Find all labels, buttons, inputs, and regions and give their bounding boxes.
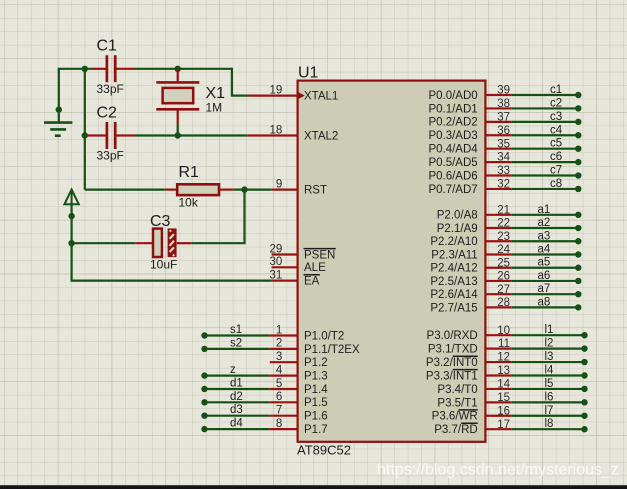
- svg-text:C3: C3: [150, 213, 171, 230]
- wire net c5 from pin 35: [512, 148, 579, 150]
- junction dot net l5: [581, 386, 587, 392]
- svg-text:a7: a7: [538, 283, 551, 295]
- wire RST row left segment: [85, 189, 165, 191]
- pin 32 (P0.7/AD7): [428, 179, 511, 196]
- svg-text:1: 1: [276, 324, 282, 336]
- svg-text:a1: a1: [538, 204, 551, 216]
- svg-text:1M: 1M: [206, 101, 223, 115]
- svg-text:31: 31: [270, 269, 283, 281]
- wire net d1 to pin 5: [205, 388, 270, 390]
- wire net c4 from pin 36: [512, 134, 579, 136]
- svg-text:39: 39: [497, 85, 510, 97]
- junction dot net a3: [575, 238, 581, 244]
- svg-text:l3: l3: [545, 351, 554, 363]
- svg-text:C2: C2: [97, 105, 118, 122]
- svg-text:22: 22: [497, 218, 510, 230]
- pin 9 (RST): [272, 178, 327, 196]
- svg-text:c5: c5: [550, 138, 562, 150]
- svg-text:18: 18: [270, 124, 283, 136]
- svg-text:12: 12: [497, 352, 510, 364]
- wire net l3 from pin 12: [512, 361, 585, 363]
- pin 18 (XTAL2): [248, 124, 339, 142]
- pin 12 (P3.2/INT0): [426, 352, 512, 369]
- junction dot net z: [201, 372, 207, 378]
- svg-text:P3.3/INT1: P3.3/INT1: [426, 370, 478, 382]
- pin 34 (P0.5/AD5): [428, 152, 511, 169]
- svg-text:P3.4/T0: P3.4/T0: [437, 384, 477, 396]
- svg-text:P0.6/AD6: P0.6/AD6: [428, 170, 477, 182]
- pin 7 (P1.6): [270, 405, 328, 423]
- pin 4 (P1.3): [270, 364, 328, 382]
- svg-text:l6: l6: [545, 391, 554, 403]
- svg-text:AT89C52: AT89C52: [297, 443, 351, 458]
- junction dot net a2: [575, 225, 581, 231]
- svg-text:2: 2: [276, 338, 282, 350]
- capacitor C1: [93, 55, 135, 82]
- svg-text:33pF: 33pF: [97, 149, 124, 163]
- wire net s2 to pin 2: [205, 348, 270, 350]
- pin 33 (P0.6/AD6): [428, 165, 511, 182]
- svg-text:21: 21: [497, 204, 510, 216]
- wire net c7 from pin 33: [512, 174, 579, 176]
- svg-text:9: 9: [276, 178, 282, 190]
- pin 19 (XTAL1): [249, 84, 339, 102]
- wire net l5 from pin 14: [512, 388, 585, 390]
- wire crystal to XTAL2 row: [177, 124, 179, 137]
- svg-text:P3.6/WR: P3.6/WR: [432, 411, 478, 423]
- svg-text:6: 6: [276, 391, 282, 403]
- svg-text:P2.5/A13: P2.5/A13: [430, 276, 477, 288]
- ground: [44, 123, 72, 136]
- wire net a2 from pin 22: [512, 227, 579, 229]
- pin 14 (P3.4/T0): [437, 379, 511, 396]
- junction dot net c1: [575, 92, 581, 98]
- svg-text:10k: 10k: [179, 196, 199, 210]
- svg-text:P3.2/INT0: P3.2/INT0: [426, 357, 478, 369]
- wire net l6 from pin 15: [512, 401, 585, 403]
- svg-text:P2.0/A8: P2.0/A8: [437, 210, 478, 222]
- wire net c6 from pin 34: [512, 161, 579, 163]
- junction dot net c2: [575, 105, 581, 111]
- wire net c8 from pin 32: [512, 188, 579, 190]
- wire C1 row: [135, 68, 232, 70]
- svg-text:a4: a4: [538, 243, 551, 255]
- svg-text:25: 25: [497, 257, 510, 269]
- wire net l4 from pin 13: [512, 374, 585, 376]
- junction dot C1/ground branch: [82, 66, 88, 72]
- wire R1 to RST pin: [233, 189, 271, 191]
- svg-text:l2: l2: [545, 338, 554, 350]
- svg-text:P3.5/T1: P3.5/T1: [437, 397, 477, 409]
- junction dot net l6: [581, 399, 587, 405]
- wire EA row: [72, 280, 272, 281]
- svg-text:a3: a3: [538, 230, 551, 242]
- pin 22 (P2.1/A9): [437, 218, 512, 235]
- junction dot net c6: [575, 159, 581, 165]
- wire net l2 from pin 11: [512, 348, 585, 350]
- junction dot above ground: [56, 106, 62, 112]
- svg-text:P0.7/AD7: P0.7/AD7: [428, 184, 477, 196]
- svg-text:23: 23: [497, 231, 510, 243]
- junction dot net l2: [581, 345, 587, 351]
- junction dot net c4: [575, 132, 581, 138]
- svg-text:a5: a5: [538, 257, 551, 269]
- svg-text:z: z: [230, 364, 236, 376]
- svg-text:P1.7: P1.7: [304, 424, 328, 436]
- pin 3 (P1.2): [270, 351, 328, 369]
- svg-text:19: 19: [270, 84, 283, 96]
- wire net c2 from pin 38: [512, 107, 579, 109]
- svg-text:l4: l4: [545, 364, 555, 376]
- pin 27 (P2.6/A14): [430, 284, 511, 301]
- svg-text:a6: a6: [538, 270, 551, 282]
- junction dot net c8: [575, 186, 581, 192]
- junction dot net l1: [581, 332, 587, 338]
- svg-text:c7: c7: [550, 165, 562, 177]
- junction dot net l7: [581, 413, 587, 419]
- svg-text:a8: a8: [538, 296, 551, 308]
- junction dot power bus upper: [68, 213, 74, 219]
- svg-text:32: 32: [497, 179, 510, 191]
- pin 31 (EA): [270, 269, 320, 287]
- svg-text:XTAL1: XTAL1: [304, 91, 338, 103]
- svg-text:P2.6/A14: P2.6/A14: [430, 289, 478, 301]
- wire XTAL2 row: [135, 134, 248, 136]
- wire net l1 from pin 10: [512, 334, 585, 336]
- junction dot crystal/XTAL2: [175, 132, 181, 138]
- svg-text:d2: d2: [230, 391, 243, 403]
- svg-text:3: 3: [276, 351, 282, 363]
- junction dot net c3: [575, 119, 581, 125]
- svg-text:XTAL2: XTAL2: [304, 130, 338, 142]
- wire net s1 to pin 1: [205, 334, 270, 336]
- svg-text:P1.0/T2: P1.0/T2: [304, 330, 344, 342]
- svg-text:P2.3/A11: P2.3/A11: [431, 249, 477, 261]
- wire net d4 to pin 8: [205, 428, 270, 430]
- wire RST branch down to C3 row: [191, 190, 244, 244]
- svg-text:26: 26: [497, 271, 510, 283]
- junction dot net a1: [575, 212, 581, 218]
- junction dot RST/C3 branch: [241, 186, 247, 192]
- bottom window border: [0, 485, 627, 489]
- wire power bus vertical: [70, 204, 72, 280]
- pin 15 (P3.5/T1): [437, 392, 511, 409]
- junction dot net d1: [201, 386, 207, 392]
- svg-text:l1: l1: [545, 324, 554, 336]
- svg-text:28: 28: [497, 297, 510, 309]
- svg-text:l5: l5: [545, 378, 554, 390]
- svg-text:EA: EA: [304, 276, 320, 288]
- junction dot net d4: [201, 426, 207, 432]
- wire C1 row corner down to XTAL1 row: [232, 68, 249, 96]
- pin 1 (P1.0/T2): [270, 324, 344, 342]
- svg-text:P2.2/A10: P2.2/A10: [430, 236, 477, 248]
- pin 29 (PSEN): [270, 243, 336, 261]
- crystal X1: [156, 70, 199, 124]
- svg-text:8: 8: [276, 418, 282, 430]
- svg-text:17: 17: [497, 419, 510, 431]
- pin 2 (P1.1/T2EX): [270, 338, 360, 356]
- svg-text:33pF: 33pF: [97, 82, 124, 96]
- svg-text:15: 15: [497, 392, 510, 404]
- svg-text:P1.6: P1.6: [304, 411, 328, 423]
- junction dot net a5: [575, 265, 581, 271]
- svg-text:d4: d4: [230, 418, 243, 430]
- wire net a6 from pin 26: [512, 280, 579, 282]
- wire left vertical bus (C1 to C2 to RST row): [84, 69, 86, 190]
- wire net z to pin 4: [205, 375, 270, 377]
- svg-text:d1: d1: [230, 378, 243, 390]
- svg-text:c1: c1: [550, 84, 562, 96]
- svg-text:P0.4/AD4: P0.4/AD4: [428, 144, 478, 156]
- pin 39 (P0.0/AD0): [428, 85, 511, 102]
- junction dot net a8: [575, 304, 581, 310]
- svg-text:d3: d3: [230, 404, 243, 416]
- svg-text:P0.3/AD3: P0.3/AD3: [428, 130, 477, 142]
- svg-text:C1: C1: [97, 38, 118, 55]
- pin 16 (P3.6/WR): [432, 405, 512, 422]
- svg-text:c6: c6: [550, 151, 562, 163]
- junction dot power bus / C3: [68, 240, 74, 246]
- svg-text:P0.5/AD5: P0.5/AD5: [428, 157, 477, 169]
- wire C3 left lead to power bus: [72, 242, 136, 244]
- junction dot net c7: [575, 172, 581, 178]
- svg-text:7: 7: [276, 405, 282, 417]
- svg-text:c8: c8: [550, 178, 562, 190]
- svg-text:35: 35: [497, 138, 510, 150]
- pin 11 (P3.1/TXD): [428, 338, 512, 355]
- resistor R1: [165, 184, 234, 195]
- wire net d3 to pin 7: [205, 415, 270, 417]
- capacitor C2: [85, 122, 135, 149]
- svg-text:P2.7/A15: P2.7/A15: [430, 302, 477, 314]
- svg-text:10: 10: [497, 325, 510, 337]
- pin 30 (ALE): [270, 256, 327, 274]
- junction dot net s1: [201, 332, 207, 338]
- svg-text:P2.4/A12: P2.4/A12: [430, 263, 477, 275]
- wire C1 row to ground corner: [58, 68, 93, 70]
- junction dot C1/crystal: [175, 66, 181, 72]
- pin 6 (P1.5): [270, 391, 328, 409]
- junction dot net d2: [201, 399, 207, 405]
- wire net a5 from pin 25: [512, 267, 579, 269]
- svg-text:https://blog.csdn.net/mysterio: https://blog.csdn.net/mysterious_z: [377, 462, 619, 479]
- svg-text:P0.2/AD2: P0.2/AD2: [428, 117, 477, 129]
- power terminal arrow: [64, 190, 78, 205]
- svg-text:13: 13: [497, 365, 510, 377]
- wire net a3 from pin 23: [512, 240, 579, 242]
- pin 25 (P2.4/A12): [430, 257, 511, 274]
- svg-text:33: 33: [497, 165, 510, 177]
- svg-text:4: 4: [276, 364, 283, 376]
- wire net a7 from pin 27: [512, 293, 579, 295]
- svg-text:P0.0/AD0: P0.0/AD0: [428, 90, 477, 102]
- svg-text:16: 16: [497, 405, 510, 417]
- svg-text:s1: s1: [230, 324, 242, 336]
- wire net c3 from pin 37: [512, 121, 579, 123]
- svg-text:29: 29: [270, 243, 283, 255]
- wire net l8 from pin 17: [512, 428, 585, 430]
- svg-text:34: 34: [497, 152, 510, 164]
- pin 37 (P0.2/AD2): [428, 111, 511, 128]
- pin 21 (P2.0/A8): [437, 204, 512, 221]
- svg-text:P1.1/T2EX: P1.1/T2EX: [304, 344, 360, 356]
- svg-text:c2: c2: [550, 97, 562, 109]
- wire net d2 to pin 6: [205, 401, 270, 403]
- svg-text:ALE: ALE: [304, 262, 326, 274]
- svg-text:P2.1/A9: P2.1/A9: [437, 223, 478, 235]
- wire net a1 from pin 21: [512, 214, 579, 216]
- svg-text:l8: l8: [545, 418, 554, 430]
- svg-text:36: 36: [497, 125, 510, 137]
- svg-text:X1: X1: [206, 85, 226, 102]
- pin 28 (P2.7/A15): [430, 297, 511, 314]
- pin 17 (P3.7/RD): [434, 419, 511, 436]
- svg-text:37: 37: [497, 111, 510, 123]
- pin 38 (P0.1/AD1): [428, 98, 511, 115]
- junction dot net l4: [581, 372, 587, 378]
- junction dot net a6: [575, 278, 581, 284]
- wire net l7 from pin 16: [512, 415, 585, 417]
- wire net a4 from pin 24: [512, 253, 579, 255]
- svg-text:P3.0/RXD: P3.0/RXD: [427, 330, 478, 342]
- svg-text:a2: a2: [538, 217, 551, 229]
- pin 24 (P2.3/A11): [431, 244, 511, 261]
- pin 13 (P3.3/INT1): [426, 365, 512, 382]
- wire net a8 from pin 28: [512, 306, 579, 308]
- svg-text:P3.7/RD: P3.7/RD: [434, 424, 477, 436]
- svg-text:l7: l7: [545, 405, 554, 417]
- svg-text:P1.3: P1.3: [304, 371, 328, 383]
- pin 5 (P1.4): [270, 378, 328, 396]
- svg-text:c3: c3: [550, 111, 562, 123]
- IC U1 (AT89C52 microcontroller) body: [298, 81, 486, 442]
- svg-text:c4: c4: [550, 124, 563, 136]
- svg-text:U1: U1: [298, 65, 319, 82]
- pin 35 (P0.4/AD4): [428, 138, 511, 155]
- pin 36 (P0.3/AD3): [428, 125, 511, 142]
- wire ground stem: [58, 68, 60, 123]
- junction dot C2 branch: [82, 132, 88, 138]
- svg-text:P1.4: P1.4: [304, 384, 328, 396]
- svg-text:11: 11: [498, 338, 510, 350]
- svg-text:P1.2: P1.2: [304, 357, 328, 369]
- junction dot net a7: [575, 291, 581, 297]
- svg-text:27: 27: [497, 284, 510, 296]
- junction dot net a4: [575, 251, 581, 257]
- svg-text:14: 14: [497, 379, 510, 391]
- svg-text:P3.1/TXD: P3.1/TXD: [428, 344, 478, 356]
- svg-text:38: 38: [497, 98, 510, 110]
- svg-text:PSEN: PSEN: [304, 249, 335, 261]
- svg-text:P1.5: P1.5: [304, 397, 328, 409]
- svg-text:10uF: 10uF: [150, 258, 177, 272]
- svg-text:RST: RST: [304, 185, 327, 197]
- svg-text:30: 30: [270, 256, 283, 268]
- svg-text:R1: R1: [179, 164, 200, 181]
- svg-text:P0.1/AD1: P0.1/AD1: [428, 103, 477, 115]
- svg-text:5: 5: [276, 378, 282, 390]
- junction dot net l3: [581, 359, 587, 365]
- pin 23 (P2.2/A10): [430, 231, 511, 248]
- capacitor C3 (electrolytic): [135, 228, 191, 257]
- junction dot net l8: [581, 426, 587, 432]
- pin 10 (P3.0/RXD): [427, 325, 512, 342]
- junction dot net d3: [201, 413, 207, 419]
- pin 8 (P1.7): [270, 418, 328, 436]
- junction dot net s2: [201, 346, 207, 352]
- wire net c1 from pin 39: [512, 94, 579, 96]
- svg-text:24: 24: [497, 244, 510, 256]
- pin 26 (P2.5/A13): [430, 271, 511, 288]
- svg-text:s2: s2: [230, 337, 242, 349]
- junction dot net c5: [575, 145, 581, 151]
